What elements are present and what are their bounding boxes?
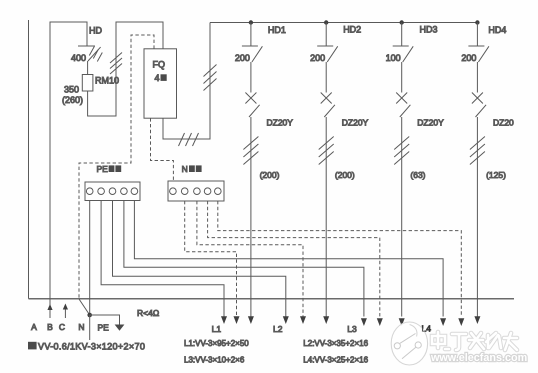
3-phase slashes L1 feeder: [243, 137, 258, 165]
watermark logo disc: [391, 322, 427, 365]
breaker Q4 blade: [476, 105, 487, 117]
wire HD1 to breaker: [250, 62, 252, 93]
wire N4 to L3 (dashed): [208, 201, 380, 317]
wire: phase C entry arrow: [64, 309, 66, 318]
wire: FQ output to main bus riser: [163, 23, 210, 140]
cabinet bottom rail: [29, 298, 515, 300]
switch HD2 fixed contact: [317, 45, 333, 47]
switch HD3 fixed contact: [393, 45, 409, 47]
node PEN junction: [87, 313, 92, 318]
svg-text:200: 200: [235, 53, 250, 63]
svg-text:(125): (125): [486, 170, 506, 180]
svg-text:200: 200: [310, 53, 325, 63]
svg-text:L1:VV-3×95+2×50: L1:VV-3×95+2×50: [184, 339, 249, 348]
svg-text:HD2: HD2: [343, 25, 361, 35]
wire N5 to L4 (dashed): [218, 201, 461, 317]
svg-text:(260): (260): [62, 95, 83, 105]
breaker Q3 contact cross: [396, 93, 407, 104]
3-phase slashes L2 feeder: [319, 137, 334, 165]
svg-text:C: C: [59, 322, 65, 332]
svg-text:(63): (63): [410, 170, 425, 180]
svg-text:VV-0.6/1KV-3×120+2×70: VV-0.6/1KV-3×120+2×70: [38, 341, 145, 351]
arrowhead L4 phase: [474, 316, 480, 324]
wire N3 to L2 (dashed): [197, 201, 303, 317]
svg-text:(200): (200): [335, 170, 355, 180]
wire PE5 to L4: [134, 201, 443, 317]
arrowhead L2 phase: [323, 316, 329, 324]
wire L1 phase feeder: [250, 117, 252, 317]
svg-text:350: 350: [64, 85, 79, 95]
label cable prefix (CJK): [28, 342, 37, 350]
svg-text:200: 200: [461, 53, 476, 63]
breaker Q1 blade: [249, 105, 260, 117]
svg-text:L3:VV-3×10+2×6: L3:VV-3×10+2×6: [184, 356, 245, 365]
arrowhead L2 N: [300, 316, 306, 324]
svg-text:N: N: [182, 164, 188, 174]
svg-text:HD4: HD4: [488, 25, 506, 35]
label block (CJK) after 4: [161, 74, 167, 81]
svg-text:www.elecfans.com: www.elecfans.com: [430, 352, 527, 364]
ground electrode arrow: [115, 325, 125, 331]
wire HD4 drop: [476, 23, 478, 46]
switch HD1 blade: [252, 46, 263, 62]
svg-text:DZ20Y: DZ20Y: [342, 118, 369, 128]
N busbar box: [168, 181, 224, 201]
wire L2 phase feeder: [325, 117, 327, 317]
meter box FQ: [144, 49, 177, 118]
svg-text:B: B: [47, 322, 53, 332]
watermark logo notch: [410, 325, 417, 337]
svg-text:HD1: HD1: [268, 25, 286, 35]
arrowhead L3 N: [377, 318, 383, 326]
switch HD fixed contact: [78, 45, 95, 47]
svg-text:DZ20Y: DZ20Y: [267, 118, 294, 128]
svg-text:L2: L2: [273, 324, 283, 334]
arrowhead phase B (up): [47, 304, 52, 310]
svg-text:HD3: HD3: [420, 25, 438, 35]
3-phase slashes on bus riser x210: [204, 65, 217, 91]
3-phase slashes L3 feeder: [394, 137, 409, 165]
switch HD4 blade: [478, 46, 489, 62]
wire PE2 to L1: [101, 201, 224, 317]
wire: incoming phase riser: [50, 22, 87, 299]
wire HD3 to breaker: [401, 62, 403, 93]
PE busbar terminals: [86, 188, 93, 195]
svg-text:L3: L3: [347, 324, 357, 334]
main bus: [210, 22, 478, 24]
wire: fuse output up to meter FQ: [88, 22, 163, 116]
arrowhead L4 PE: [440, 318, 446, 326]
wire PE3 to L2: [113, 201, 286, 317]
wire PE4 to L3: [124, 201, 364, 317]
wire HD3 drop: [401, 23, 403, 46]
wire HD2 drop: [325, 23, 327, 46]
wire N slant to PEN junction: [79, 299, 90, 315]
node HD2 bus tap: [324, 20, 328, 24]
wire: switch to fuse: [87, 61, 89, 75]
node HD3 bus tap: [400, 20, 404, 24]
arrowhead phase C (up): [63, 304, 68, 310]
fuse RM10 body: [82, 75, 93, 92]
svg-text:L4: L4: [422, 324, 432, 334]
watermark brand glyphs (stylized): [432, 332, 517, 350]
breaker Q2 contact cross: [321, 93, 332, 104]
switch HD1 fixed contact: [242, 45, 258, 47]
3-phase slashes on HD blade: [89, 47, 102, 62]
wire HD2 to breaker: [325, 62, 327, 93]
svg-text:L2:VV-3×35+2×16: L2:VV-3×35+2×16: [303, 339, 368, 348]
wire PE down to cable: [89, 315, 91, 340]
wire N feed FQ to N busbar (dashed): [151, 118, 174, 181]
watermark logo eye 2: [415, 342, 421, 348]
wire N source path (dashed): [79, 35, 154, 299]
3-phase slashes on FQ output horizontal: [179, 133, 199, 146]
switch HD4 fixed contact: [468, 45, 484, 47]
wire: phase B entry below rail: [49, 299, 51, 318]
wire L4 phase feeder: [476, 117, 478, 317]
arrowhead L3 PE: [361, 318, 367, 326]
switch HD3 blade: [403, 46, 414, 62]
watermark logo stroke 1: [400, 334, 416, 344]
watermark logo stroke 2: [402, 347, 416, 359]
wire HD1 drop: [250, 23, 252, 46]
N busbar terminals: [170, 188, 177, 195]
svg-text:400: 400: [71, 53, 86, 63]
PE busbar box: [85, 182, 140, 201]
arrowhead L4 N: [458, 318, 464, 326]
switch HD blade: [88, 47, 101, 61]
svg-text:L1: L1: [212, 324, 222, 334]
arrowhead L1 N: [234, 316, 240, 324]
svg-text:PE: PE: [97, 164, 109, 174]
breaker Q1 contact cross: [245, 93, 256, 104]
arrowhead L1 PE: [221, 316, 227, 324]
watermark logo eye 1: [394, 343, 400, 349]
breaker Q2 blade: [324, 105, 335, 117]
wire HD4 to breaker: [476, 62, 478, 93]
svg-text:(200): (200): [260, 170, 280, 180]
3-phase slashes on riser x116: [110, 53, 122, 75]
svg-text:L4:VV-3×25+2×16: L4:VV-3×25+2×16: [303, 356, 368, 365]
svg-text:PE: PE: [98, 323, 110, 333]
arrowhead L1 phase: [248, 316, 254, 324]
svg-text:N: N: [78, 322, 84, 332]
svg-text:DZ20: DZ20: [493, 118, 514, 128]
wire PE1 to earth junction: [89, 201, 91, 314]
3-phase slashes L4 feeder: [470, 137, 485, 165]
svg-text:R<4Ω: R<4Ω: [137, 308, 159, 318]
svg-text:DZ20Y: DZ20Y: [417, 118, 444, 128]
arrowhead L3 phase: [399, 318, 405, 326]
svg-text:A: A: [31, 322, 37, 332]
svg-text:HD: HD: [89, 26, 102, 36]
cabinet left wall: [28, 20, 30, 299]
svg-text:4: 4: [155, 73, 160, 83]
breaker Q4 contact cross: [472, 93, 483, 104]
wire N2 to L1 (dashed): [185, 201, 237, 317]
svg-text:RM10: RM10: [95, 76, 119, 86]
switch HD2 blade: [327, 46, 338, 62]
breaker Q3 blade: [400, 105, 411, 117]
svg-text:100: 100: [386, 53, 401, 63]
arrowhead L2 PE: [283, 316, 289, 324]
node HD4 bus tap: [475, 20, 479, 24]
wire L3 phase feeder: [401, 117, 403, 317]
node HD1 bus tap: [249, 20, 253, 24]
svg-text:FQ: FQ: [153, 60, 166, 70]
wire junction to earth electrode: [90, 315, 120, 325]
